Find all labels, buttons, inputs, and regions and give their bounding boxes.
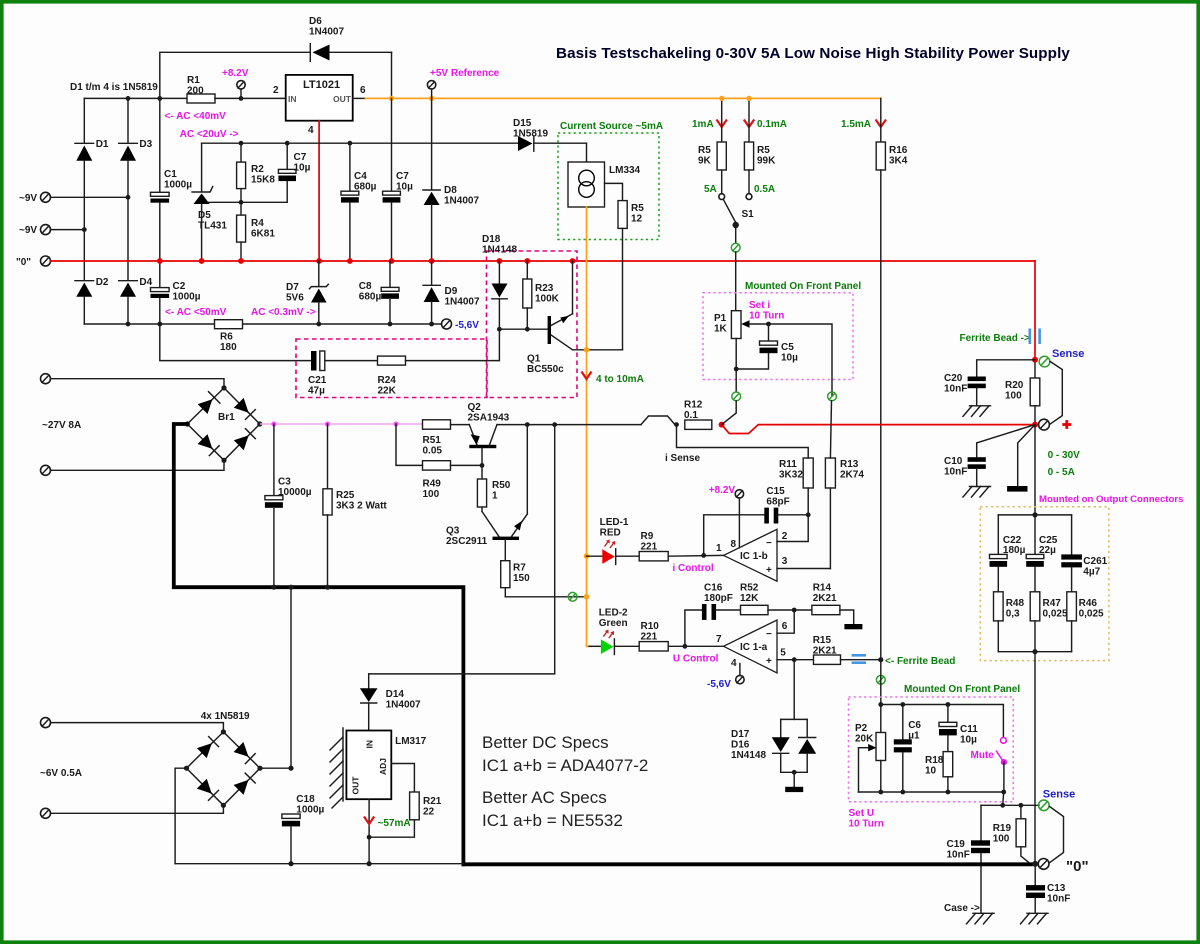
svg-text:C11: C11	[960, 724, 978, 735]
wire R1 to LT1021 with +8.2V node	[215, 97, 286, 99]
svg-text:0,025: 0,025	[1079, 609, 1104, 620]
terminal "0"	[16, 256, 51, 268]
red wire to + output with dip	[722, 425, 1035, 434]
svg-text:2K21: 2K21	[813, 646, 837, 657]
svg-text:100: 100	[423, 489, 440, 500]
svg-text:1000µ: 1000µ	[296, 805, 324, 816]
svg-text:C1: C1	[164, 169, 177, 180]
ferrite bead (blue bars)	[852, 655, 866, 662]
svg-text:C20: C20	[944, 373, 963, 384]
wire LED-2 to R10	[614, 645, 639, 647]
wire P1 to R12 node	[722, 401, 737, 425]
svg-text:1.5mA: 1.5mA	[841, 119, 871, 130]
svg-text:2: 2	[273, 85, 279, 96]
red arrow 1.5mA	[876, 120, 886, 128]
svg-text:-5,6V: -5,6V	[707, 679, 731, 690]
svg-text:R11: R11	[779, 459, 797, 470]
svg-text:R18: R18	[925, 755, 944, 766]
svg-text:10µ: 10µ	[294, 163, 311, 174]
red arrow 57mA	[364, 817, 374, 825]
capacitor C21	[308, 351, 327, 397]
wire D14 net vertical x=554.7	[369, 425, 555, 674]
wire R15 to ferrite	[841, 659, 881, 661]
wire R11 bottom to pin 2	[777, 515, 808, 542]
svg-text:4: 4	[731, 658, 737, 669]
bridge 4x 1N5819	[184, 729, 263, 808]
resistor R7	[501, 561, 530, 597]
PE bar	[1007, 486, 1027, 492]
svg-text:4x 1N5819: 4x 1N5819	[201, 711, 250, 722]
svg-text:C21: C21	[308, 375, 327, 386]
wire LM334 right to R5(12)	[605, 183, 623, 200]
terminal ~9V upper	[19, 192, 51, 204]
rail y=143 from D5 to LM334	[202, 142, 518, 144]
aux bottom rail	[175, 863, 463, 865]
resistor R18	[925, 752, 953, 792]
svg-text:IC1 a+b = NE5532: IC1 a+b = NE5532	[482, 811, 623, 830]
svg-text:D17: D17	[731, 729, 750, 740]
svg-text:C5: C5	[781, 342, 794, 353]
svg-text:R51: R51	[423, 435, 442, 446]
red arrow 0.1mA	[744, 120, 754, 128]
wire R49 left to pink node	[396, 424, 423, 465]
svg-text:<- Ferrite Bead: <- Ferrite Bead	[885, 656, 955, 667]
capacitor C2	[151, 261, 201, 324]
wire top rail y=98 D1 to LT1021	[84, 97, 187, 99]
terminal -5,6V left	[442, 319, 480, 331]
svg-text:R9: R9	[641, 531, 654, 542]
svg-text:D8: D8	[444, 185, 457, 196]
svg-text:10 Turn: 10 Turn	[749, 311, 784, 322]
wire LT1021 pin4 red	[318, 121, 320, 261]
wire output column to "0"	[1034, 652, 1036, 864]
sense node red dot	[1032, 357, 1038, 363]
svg-text:2K74: 2K74	[840, 470, 864, 481]
svg-text:R49: R49	[423, 479, 442, 490]
resistor R24	[378, 356, 406, 396]
wire R24 to D18 node	[406, 329, 500, 360]
terminal ~27V lower	[41, 465, 51, 475]
pink wire Br1 + to R51	[260, 423, 423, 425]
dashed magenta box D18/Q1	[487, 251, 578, 398]
zener D5 TL431	[192, 143, 227, 261]
svg-text:<- AC <50mV: <- AC <50mV	[165, 307, 227, 318]
svg-text:0.1: 0.1	[684, 410, 698, 421]
wire S1 common down	[735, 225, 737, 243]
svg-text:8: 8	[731, 539, 737, 550]
svg-text:12K: 12K	[740, 593, 759, 604]
svg-text:22: 22	[423, 807, 435, 818]
wire lower AC to Br1 bottom	[51, 460, 225, 470]
svg-text:20K: 20K	[855, 734, 874, 745]
wire pin5 down to D16/D17	[793, 660, 795, 720]
svg-text:Basis Testschakeling 0-30V 5A: Basis Testschakeling 0-30V 5A Low Noise …	[556, 45, 1070, 62]
dotted magenta box P1	[703, 293, 853, 380]
resistor R52	[740, 583, 768, 615]
terminal + output	[1039, 419, 1072, 430]
svg-text:1N5819: 1N5819	[513, 129, 548, 140]
dotted tan box output connectors	[980, 507, 1109, 661]
svg-text:2: 2	[782, 531, 788, 542]
svg-text:OUT: OUT	[351, 776, 361, 795]
svg-text:221: 221	[641, 632, 658, 643]
svg-text:−: −	[766, 629, 772, 640]
capacitor C4	[341, 143, 377, 261]
svg-text:<- AC <40mV: <- AC <40mV	[165, 111, 227, 122]
capacitor C1	[151, 98, 193, 261]
svg-text:680µ: 680µ	[359, 292, 382, 303]
resistor R51	[423, 420, 451, 457]
svg-text:2SC2911: 2SC2911	[446, 536, 488, 547]
wire diag to C10	[977, 425, 1035, 458]
svg-text:i Control: i Control	[673, 563, 714, 574]
node D3 top	[126, 96, 131, 101]
svg-text:µ1: µ1	[908, 731, 920, 742]
resistor R5 12	[618, 201, 644, 350]
transistor Q2 2SA1943	[468, 402, 510, 448]
svg-text:R1: R1	[187, 75, 200, 86]
rail y=324	[84, 323, 214, 325]
wire Q2 base stub	[481, 448, 483, 465]
svg-text:Better AC Specs: Better AC Specs	[482, 788, 607, 807]
svg-text:22K: 22K	[378, 386, 397, 397]
wire R5 99K column	[748, 98, 750, 142]
svg-text:R15: R15	[813, 635, 832, 646]
wire ~9V lower to D1 column	[51, 229, 85, 231]
red "0" rail	[51, 260, 1036, 262]
svg-text:Mounted On Front Panel: Mounted On Front Panel	[904, 684, 1020, 695]
red arrow 1mA	[717, 120, 727, 128]
capacitor C18	[282, 794, 325, 864]
terminal ~9V lower	[19, 225, 51, 236]
svg-text:~6V 0.5A: ~6V 0.5A	[40, 768, 82, 779]
svg-text:Ferrite Bead ->: Ferrite Bead ->	[960, 333, 1030, 344]
resistor R47	[1030, 592, 1068, 652]
svg-text:S1: S1	[742, 209, 755, 220]
resistor R46	[1067, 592, 1104, 652]
svg-text:U Control: U Control	[673, 654, 719, 665]
TL431 ref wire	[208, 201, 287, 203]
op-amp IC1-a	[716, 620, 788, 673]
capacitor C20	[944, 373, 986, 406]
earth ground C10	[963, 487, 991, 498]
IC LM334	[568, 143, 641, 207]
svg-text:3K32: 3K32	[779, 470, 803, 481]
capacitor C15	[764, 486, 808, 524]
wire R13 column continues	[830, 401, 831, 458]
svg-text:C4: C4	[354, 171, 367, 182]
svg-text:D5: D5	[198, 210, 211, 221]
svg-text:5A: 5A	[704, 184, 717, 195]
svg-text:1N4148: 1N4148	[482, 245, 517, 256]
diode D2	[75, 277, 109, 324]
resistor R2	[237, 143, 276, 202]
svg-text:IC 1-b: IC 1-b	[740, 551, 768, 562]
svg-text:1N4007: 1N4007	[309, 27, 344, 38]
svg-text:5: 5	[780, 648, 786, 659]
wire into P2 box	[880, 660, 882, 705]
svg-text:C6: C6	[908, 720, 921, 731]
svg-text:R2: R2	[251, 164, 264, 175]
svg-text:R52: R52	[740, 583, 759, 594]
svg-text:0 - 5A: 0 - 5A	[1048, 467, 1075, 478]
wire +8.2V to IC1-b pin8	[738, 498, 740, 548]
diode D4	[119, 277, 153, 324]
wire aux feed down from bus	[290, 587, 292, 768]
terminal Sense bottom green	[1039, 800, 1050, 811]
svg-text:R7: R7	[513, 563, 526, 574]
resistor R12	[684, 400, 712, 430]
svg-text:D1: D1	[96, 139, 109, 150]
svg-text:100: 100	[993, 834, 1010, 845]
diode D3	[119, 139, 153, 280]
orange wire LM334 output down	[586, 207, 588, 646]
resistor R20	[1005, 363, 1040, 425]
wire D6 down to orange rail	[391, 52, 393, 98]
svg-text:Q1: Q1	[527, 354, 541, 365]
svg-text:680µ: 680µ	[354, 182, 377, 193]
svg-text:99K: 99K	[757, 156, 776, 167]
svg-text:100: 100	[1005, 391, 1022, 402]
thick negative bus from Br1 left	[174, 424, 464, 864]
svg-text:1000µ: 1000µ	[173, 292, 201, 303]
heatsink LM317	[330, 728, 343, 808]
wiper wire to R13 column	[767, 324, 832, 396]
svg-text:D14: D14	[386, 689, 405, 700]
terminal green R13 column	[828, 392, 837, 401]
svg-text:4 to 10mA: 4 to 10mA	[596, 374, 644, 385]
potentiometer P1	[714, 311, 767, 339]
svg-text:0.1mA: 0.1mA	[757, 119, 787, 130]
resistor R15	[813, 635, 841, 664]
sense bottom wire	[981, 804, 1039, 806]
wire R52 to node	[768, 609, 812, 611]
svg-text:1N4007: 1N4007	[444, 196, 479, 207]
svg-text:4µ7: 4µ7	[1083, 567, 1100, 578]
svg-text:C7: C7	[294, 152, 307, 163]
svg-text:ADJ: ADJ	[378, 758, 388, 775]
svg-text:C16: C16	[704, 583, 723, 594]
svg-text:5V6: 5V6	[286, 293, 304, 304]
diode D9	[423, 261, 480, 324]
svg-text:P1: P1	[714, 313, 727, 324]
svg-text:BC550c: BC550c	[527, 364, 564, 375]
capacitor C3	[265, 424, 312, 587]
svg-text:C15: C15	[766, 486, 785, 497]
wire C20 top	[977, 360, 1035, 377]
svg-text:R16: R16	[889, 145, 908, 156]
svg-text:1K: 1K	[714, 324, 728, 335]
snubber bottom rail	[998, 651, 1071, 653]
svg-text:+8.2V: +8.2V	[222, 68, 249, 79]
svg-text:47µ: 47µ	[308, 386, 325, 397]
svg-text:200: 200	[187, 86, 204, 97]
wire pin5 node	[777, 659, 814, 661]
svg-text:Q2: Q2	[468, 402, 482, 413]
svg-text:C261: C261	[1083, 556, 1107, 567]
resistor R25	[323, 424, 388, 587]
svg-text:1N4007: 1N4007	[445, 297, 480, 308]
sense link bracket top	[1050, 362, 1062, 425]
svg-text:D1 t/m 4 is 1N5819: D1 t/m 4 is 1N5819	[70, 82, 158, 93]
wire aux right vertex to C18 column	[260, 767, 291, 769]
bus junction dots	[271, 585, 276, 590]
svg-text:+5V Reference: +5V Reference	[430, 68, 500, 79]
svg-text:D6: D6	[309, 16, 322, 27]
svg-text:10µ: 10µ	[781, 353, 798, 364]
svg-text:3K3 2 Watt: 3K3 2 Watt	[336, 501, 387, 512]
diode D1	[75, 139, 109, 230]
svg-text:68pF: 68pF	[766, 497, 789, 508]
svg-text:10nF: 10nF	[1047, 894, 1070, 905]
wire ~9V upper to D3 column	[51, 196, 129, 198]
svg-text:LED-2: LED-2	[599, 608, 628, 619]
svg-text:IC1 a+b = ADA4077-2: IC1 a+b = ADA4077-2	[482, 756, 648, 775]
svg-text:"0": "0"	[1066, 858, 1089, 875]
svg-text:Set i: Set i	[749, 300, 770, 311]
svg-text:7: 7	[716, 634, 722, 645]
transistor Q1 BC550c	[527, 261, 573, 375]
wire P1 bottom	[735, 339, 737, 393]
svg-text:0.05: 0.05	[423, 446, 443, 457]
svg-text:1: 1	[492, 491, 498, 502]
potentiometer P2	[855, 705, 886, 793]
wire Q1 collector to R5(12) column	[573, 349, 623, 351]
wire R14 to ground bar	[840, 610, 854, 624]
svg-text:-5,6V: -5,6V	[455, 320, 479, 331]
svg-text:−: −	[766, 538, 772, 549]
resistor R48	[994, 592, 1025, 652]
svg-text:~9V: ~9V	[19, 193, 37, 204]
switch Mute	[971, 738, 1008, 793]
svg-text:R50: R50	[492, 480, 511, 491]
terminal +8.2V op-amp	[709, 485, 744, 498]
capacitor C19	[947, 839, 991, 913]
terminal +8.2V	[222, 68, 249, 98]
capacitor C7 (first)	[278, 143, 310, 202]
switch S1 lever	[723, 199, 735, 222]
capacitor C22	[990, 515, 1026, 592]
svg-text:0.5A: 0.5A	[754, 184, 775, 195]
svg-text:C19: C19	[947, 839, 966, 850]
IC LT1021	[273, 75, 366, 136]
capacitor C6	[894, 705, 922, 793]
node on D1 column	[82, 227, 87, 232]
resistor R13	[825, 458, 864, 569]
svg-text:Mounted on Output Connectors: Mounted on Output Connectors	[1039, 494, 1183, 505]
wire LED-1 to R9	[616, 555, 640, 557]
svg-text:Better DC Specs: Better DC Specs	[482, 733, 609, 752]
svg-text:LM317: LM317	[395, 736, 427, 747]
LED-1	[587, 539, 616, 564]
capacitor C11	[939, 705, 978, 752]
wire R51 to Q2 emitter	[451, 424, 470, 426]
svg-text:C8: C8	[359, 281, 372, 292]
capacitor C5	[736, 324, 798, 369]
wire hop	[641, 416, 677, 425]
wire C16 to R52	[716, 609, 740, 611]
wire IC1-a pin4	[739, 664, 741, 676]
svg-text:C13: C13	[1047, 883, 1066, 894]
svg-text:0,3: 0,3	[1006, 609, 1020, 620]
svg-text:R47: R47	[1043, 598, 1062, 609]
red arrow 4 to 10mA	[582, 372, 592, 380]
orange +5V rail	[366, 97, 881, 99]
zener D7	[286, 261, 328, 324]
svg-text:180µ: 180µ	[1003, 545, 1026, 556]
wire D3 column	[127, 98, 129, 142]
svg-text:~57mA: ~57mA	[378, 818, 411, 829]
svg-text:Sense: Sense	[1043, 789, 1075, 801]
diode D15	[513, 118, 587, 151]
svg-text:+8.2V: +8.2V	[709, 485, 736, 496]
svg-text:D2: D2	[96, 277, 109, 288]
capacitor C16	[702, 583, 733, 620]
svg-text:0,025: 0,025	[1043, 609, 1068, 620]
svg-text:IC 1-a: IC 1-a	[740, 642, 768, 653]
resistor R4	[237, 202, 276, 261]
svg-text:D7: D7	[286, 282, 299, 293]
dotted magenta box P2	[849, 697, 1014, 802]
svg-text:D4: D4	[139, 277, 152, 288]
bridge Br1	[185, 385, 263, 463]
node on D3 column	[126, 195, 131, 200]
wire C21 to R24	[325, 360, 378, 362]
wire C19 column	[980, 805, 982, 840]
op-amp IC1-b	[716, 529, 788, 581]
svg-text:Br1: Br1	[218, 412, 235, 423]
capacitor C10	[944, 456, 986, 487]
resistor R50	[477, 465, 510, 511]
wire node to pin 6	[777, 610, 794, 633]
terminal green above P2 box	[876, 675, 885, 684]
svg-text:1mA: 1mA	[692, 119, 714, 130]
resistor R21	[369, 792, 442, 837]
svg-text:D18: D18	[482, 234, 501, 245]
svg-text:LED-1: LED-1	[600, 517, 629, 528]
svg-text:1000µ: 1000µ	[164, 180, 192, 191]
svg-text:R46: R46	[1079, 598, 1098, 609]
wire R16 column top	[880, 98, 882, 142]
capacitor C8	[359, 261, 399, 324]
wire LT1021 OUT stub	[353, 97, 366, 99]
svg-text:LM334: LM334	[609, 165, 641, 176]
wire R9 to IC1-b output node	[668, 554, 723, 557]
svg-text:R25: R25	[336, 490, 355, 501]
svg-text:10nF: 10nF	[944, 467, 967, 478]
wire S1 to P1 (crosses red rail)	[735, 252, 737, 311]
LED-2	[587, 630, 615, 655]
wire C2 col down to C21	[160, 324, 311, 361]
svg-text:D3: D3	[139, 139, 152, 150]
LM317 OUT column	[368, 799, 370, 864]
terminal ~6V upper	[41, 718, 51, 728]
terminal "0" output	[1038, 858, 1088, 875]
svg-text:OUT: OUT	[333, 94, 352, 104]
svg-text:C18: C18	[296, 794, 315, 805]
svg-text:D16: D16	[731, 740, 750, 751]
svg-text:R23: R23	[535, 283, 554, 294]
svg-text:Q3: Q3	[446, 526, 460, 537]
svg-text:R5: R5	[698, 145, 711, 156]
red node R12 right	[719, 422, 725, 428]
svg-text:IN: IN	[365, 740, 375, 749]
output ferrite bead blue bars	[1030, 329, 1040, 345]
wire P2 box exit down	[1003, 792, 1004, 805]
wire lower to aux bridge bottom	[51, 805, 224, 813]
svg-text:AC <20uV ->: AC <20uV ->	[180, 129, 239, 140]
resistor R1	[187, 75, 215, 103]
